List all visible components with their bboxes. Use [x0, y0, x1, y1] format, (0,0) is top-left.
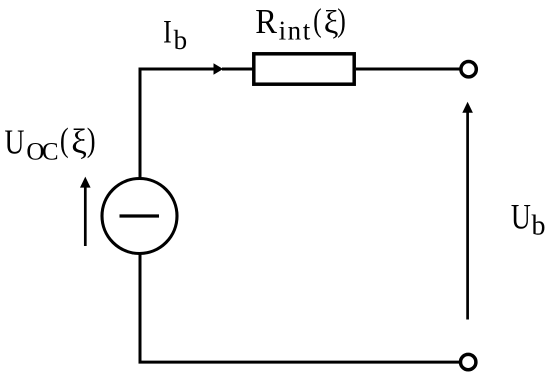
bottom terminal node (open circle) — [461, 354, 476, 369]
svg-text:I: I — [163, 14, 172, 50]
resistor R_int — [254, 54, 354, 84]
svg-text:ξ: ξ — [324, 5, 339, 41]
svg-text:): ) — [87, 121, 96, 159]
U_b arrow shaft — [466, 112, 469, 320]
svg-text:ξ: ξ — [71, 122, 87, 161]
svg-text:OC: OC — [26, 139, 57, 166]
label R_int(xi) — [255, 3, 346, 46]
label I_b — [163, 14, 187, 54]
svg-text:int: int — [279, 16, 312, 46]
svg-text:b: b — [532, 211, 546, 242]
svg-text:U: U — [511, 197, 531, 236]
svg-text:R: R — [255, 3, 277, 41]
U_OC arrowhead — [80, 177, 91, 188]
current arrow I_b arrowhead — [214, 63, 224, 74]
voltage source horizontal bar — [120, 214, 160, 217]
U_b arrowhead — [462, 102, 473, 113]
label U_OC(xi) — [4, 121, 95, 166]
wire: arrowhead to resistor — [222, 68, 253, 71]
U_OC arrow shaft — [84, 187, 87, 247]
svg-text:): ) — [337, 3, 346, 39]
wire: resistor to top terminal — [356, 68, 460, 71]
svg-text:(: ( — [313, 3, 322, 39]
wire: left vertical + top horizontal to current arrow — [140, 69, 214, 178]
svg-text:(: ( — [60, 121, 69, 159]
wire: source bottom + bottom horizontal — [140, 254, 459, 362]
svg-text:b: b — [174, 25, 188, 55]
label U_b — [511, 197, 546, 241]
voltage source U_OC (circle symbol) — [102, 179, 177, 254]
top terminal node (open circle) — [461, 61, 476, 76]
svg-text:U: U — [4, 123, 24, 162]
